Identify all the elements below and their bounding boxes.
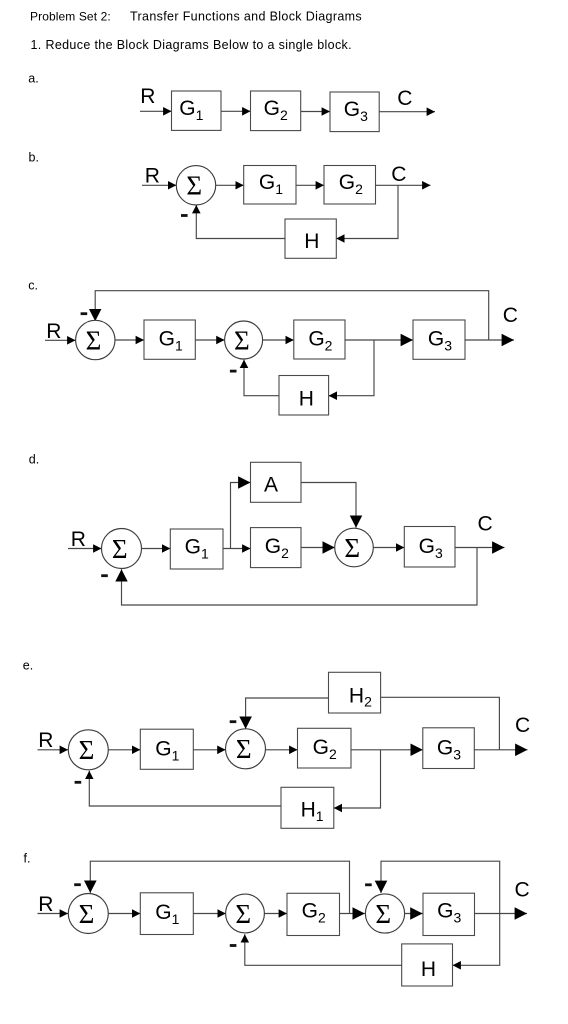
wire outer feedback (d) — [122, 548, 478, 606]
svg-text:Σ: Σ — [234, 325, 250, 355]
wire G2 to S2 (d) — [301, 547, 335, 549]
wire output (b) — [376, 184, 431, 186]
wire S2 to G2 (e) — [265, 749, 297, 751]
wire R input (a) — [140, 110, 172, 112]
wire output tap down to H (f) — [453, 914, 500, 966]
svg-text:H: H — [304, 230, 319, 253]
section label c — [28, 279, 38, 293]
block G1 (e) — [140, 729, 193, 769]
block G3 (f) — [423, 893, 475, 935]
svg-text:Σ: Σ — [86, 325, 102, 355]
svg-text:Σ: Σ — [344, 533, 360, 563]
svg-text:R: R — [46, 320, 61, 343]
wire outer feedback top (c) — [95, 291, 489, 340]
wire A to S2 top (d) — [301, 483, 356, 528]
section label e — [23, 658, 33, 672]
title line — [30, 10, 362, 24]
summing junction S3 (f) — [365, 894, 404, 933]
wire H to S2 (f) — [245, 934, 402, 965]
svg-text:C: C — [515, 714, 530, 737]
summing junction S2 (e) — [226, 729, 266, 769]
svg-text:R: R — [145, 165, 160, 188]
block H (b) — [285, 219, 336, 258]
wire G1 to S2 (c) — [195, 339, 224, 341]
svg-text:Σ: Σ — [186, 171, 202, 201]
wire S2 to G3 (d) — [373, 547, 404, 549]
block G1 (f) — [140, 893, 193, 935]
minus sign at S3 top (f) — [365, 883, 372, 886]
block G2 (d) — [251, 528, 302, 568]
wire output (e) — [474, 749, 527, 751]
wire H to S2 (c) — [244, 360, 279, 396]
wire R input (e) — [38, 749, 69, 751]
wire tap up to A (d) — [231, 483, 251, 549]
block G1 (a) — [172, 91, 222, 130]
svg-text:a.: a. — [28, 71, 38, 85]
summing junction S2 (c) — [225, 321, 263, 359]
wire G1 to G2 (b) — [296, 184, 324, 186]
wire G2 to S3 (f) — [340, 913, 365, 915]
block G3 (a) — [330, 92, 379, 132]
wire S1 to G1 (b) — [216, 184, 244, 186]
block G3 (e) — [423, 728, 475, 769]
svg-text:R: R — [140, 85, 155, 108]
node C label (e) — [515, 714, 530, 737]
wire output (f) — [475, 913, 528, 915]
block G2 (b) — [324, 166, 376, 205]
node R label (b) — [145, 165, 160, 188]
svg-text:H: H — [299, 388, 314, 411]
svg-text:Σ: Σ — [79, 735, 95, 765]
wire H2 to S2 top (e) — [246, 698, 329, 729]
wire G1 to S2 (f) — [193, 913, 226, 915]
minus sign at S2 top (e) — [230, 720, 237, 723]
wire G2 to G3 (e) — [351, 749, 423, 751]
svg-text:Transfer Functions and Block D: Transfer Functions and Block Diagrams — [130, 10, 362, 24]
wire S1 to G1 (e) — [108, 749, 140, 751]
section label b — [29, 151, 39, 165]
wire S3 to G3 (f) — [405, 913, 423, 915]
svg-text:Problem Set 2:: Problem Set 2: — [30, 10, 111, 24]
wire R input (b) — [142, 184, 176, 186]
svg-text:c.: c. — [28, 279, 38, 293]
wire S1 to G1 (c) — [115, 339, 144, 341]
summing junction S2 (f) — [226, 894, 265, 933]
block G2 (a) — [251, 91, 301, 131]
wire output tap to H2 (e) — [381, 697, 500, 750]
section label a — [28, 71, 38, 85]
wire S1 to G1 (d) — [142, 548, 171, 550]
wire G2 to G3 (c) — [345, 339, 413, 341]
node R label (d) — [71, 528, 86, 551]
node C label (f) — [515, 878, 530, 901]
wire R input (c) — [45, 339, 76, 341]
svg-text:Σ: Σ — [236, 734, 252, 764]
wire output (a) — [379, 111, 435, 113]
node C label (c) — [503, 304, 518, 327]
svg-text:R: R — [71, 528, 86, 551]
wire S1 to G1 (f) — [108, 913, 140, 915]
node C label (a) — [397, 87, 412, 110]
svg-text:H: H — [421, 958, 436, 981]
block H (f) — [402, 944, 453, 986]
block G1 (d) — [170, 529, 223, 569]
wire H1 to S1 (e) — [89, 771, 281, 806]
summing junction S2 (d) — [335, 528, 374, 567]
wire H to S1 (b) — [196, 205, 285, 239]
minus sign at S2 (c) — [230, 370, 237, 373]
section label f — [24, 851, 31, 865]
block A (d) — [251, 462, 302, 502]
svg-text:1. Reduce the Block Diagrams B: 1. Reduce the Block Diagrams Below to a … — [31, 38, 352, 52]
minus sign at S2 (f) — [230, 944, 237, 947]
block G2 (f) — [287, 893, 340, 935]
wire R input (d) — [68, 548, 102, 550]
wire output tap to S3 top (f) — [381, 861, 500, 913]
svg-text:Σ: Σ — [375, 899, 391, 929]
svg-text:b.: b. — [29, 151, 39, 165]
svg-text:Σ: Σ — [235, 899, 251, 929]
summing junction S1 (e) — [68, 730, 108, 770]
block G3 (d) — [404, 527, 455, 568]
wire H feedback tap (c) — [329, 340, 374, 396]
svg-text:R: R — [38, 729, 53, 752]
svg-text:C: C — [478, 513, 493, 536]
wire S2 to G2 (f) — [264, 913, 287, 915]
summing junction S1 (d) — [102, 529, 142, 569]
minus sign at S1 top (f) — [74, 883, 81, 886]
wire G1 to S2 (e) — [193, 749, 225, 751]
block G1 (c) — [144, 320, 195, 359]
wire S2 to G2 (c) — [263, 339, 294, 341]
summing junction S1 (b) — [176, 166, 215, 205]
svg-text:A: A — [264, 473, 278, 496]
minus sign at S1 (e) — [75, 781, 82, 784]
block H1 (e) — [281, 787, 334, 828]
svg-text:d.: d. — [29, 453, 39, 467]
node C label (b) — [391, 163, 406, 186]
svg-text:C: C — [391, 163, 406, 186]
wire G2 tap to S1 top (f) — [90, 861, 349, 913]
node C label (d) — [478, 513, 493, 536]
block G3 (c) — [413, 320, 465, 359]
node R label (c) — [46, 320, 61, 343]
block G1 (b) — [244, 166, 296, 205]
wire G1 to G2 (d) — [223, 548, 251, 550]
wire R input (f) — [38, 913, 69, 915]
minus sign at S1 (d) — [101, 574, 108, 577]
svg-text:Σ: Σ — [112, 534, 128, 564]
svg-text:e.: e. — [23, 658, 33, 672]
node R label (a) — [140, 85, 155, 108]
svg-text:f.: f. — [24, 851, 31, 865]
svg-text:Σ: Σ — [79, 899, 95, 929]
node R label (f) — [38, 893, 53, 916]
svg-text:C: C — [503, 304, 518, 327]
minus sign at S1 top (c) — [81, 312, 88, 315]
wire G1 to G2 (a) — [221, 110, 251, 112]
svg-text:R: R — [38, 893, 53, 916]
svg-text:C: C — [397, 87, 412, 110]
block H2 (e) — [329, 672, 381, 713]
section label d — [29, 453, 39, 467]
wire output (c) — [465, 339, 514, 341]
block G2 (c) — [294, 320, 345, 359]
node R label (e) — [38, 729, 53, 752]
wire H1 feedback tap (e) — [334, 750, 381, 808]
summing junction S1 (c) — [76, 320, 115, 359]
svg-text:C: C — [515, 878, 530, 901]
minus sign at S1 (b) — [181, 214, 188, 217]
block H (c) — [279, 376, 329, 416]
summing junction S1 (f) — [68, 894, 108, 934]
wire output (d) — [455, 547, 505, 549]
wire feedback tap down (b) — [336, 185, 398, 238]
instruction line — [31, 38, 352, 52]
wire G2 to G3 (a) — [301, 111, 330, 113]
block G2 (e) — [298, 728, 352, 768]
